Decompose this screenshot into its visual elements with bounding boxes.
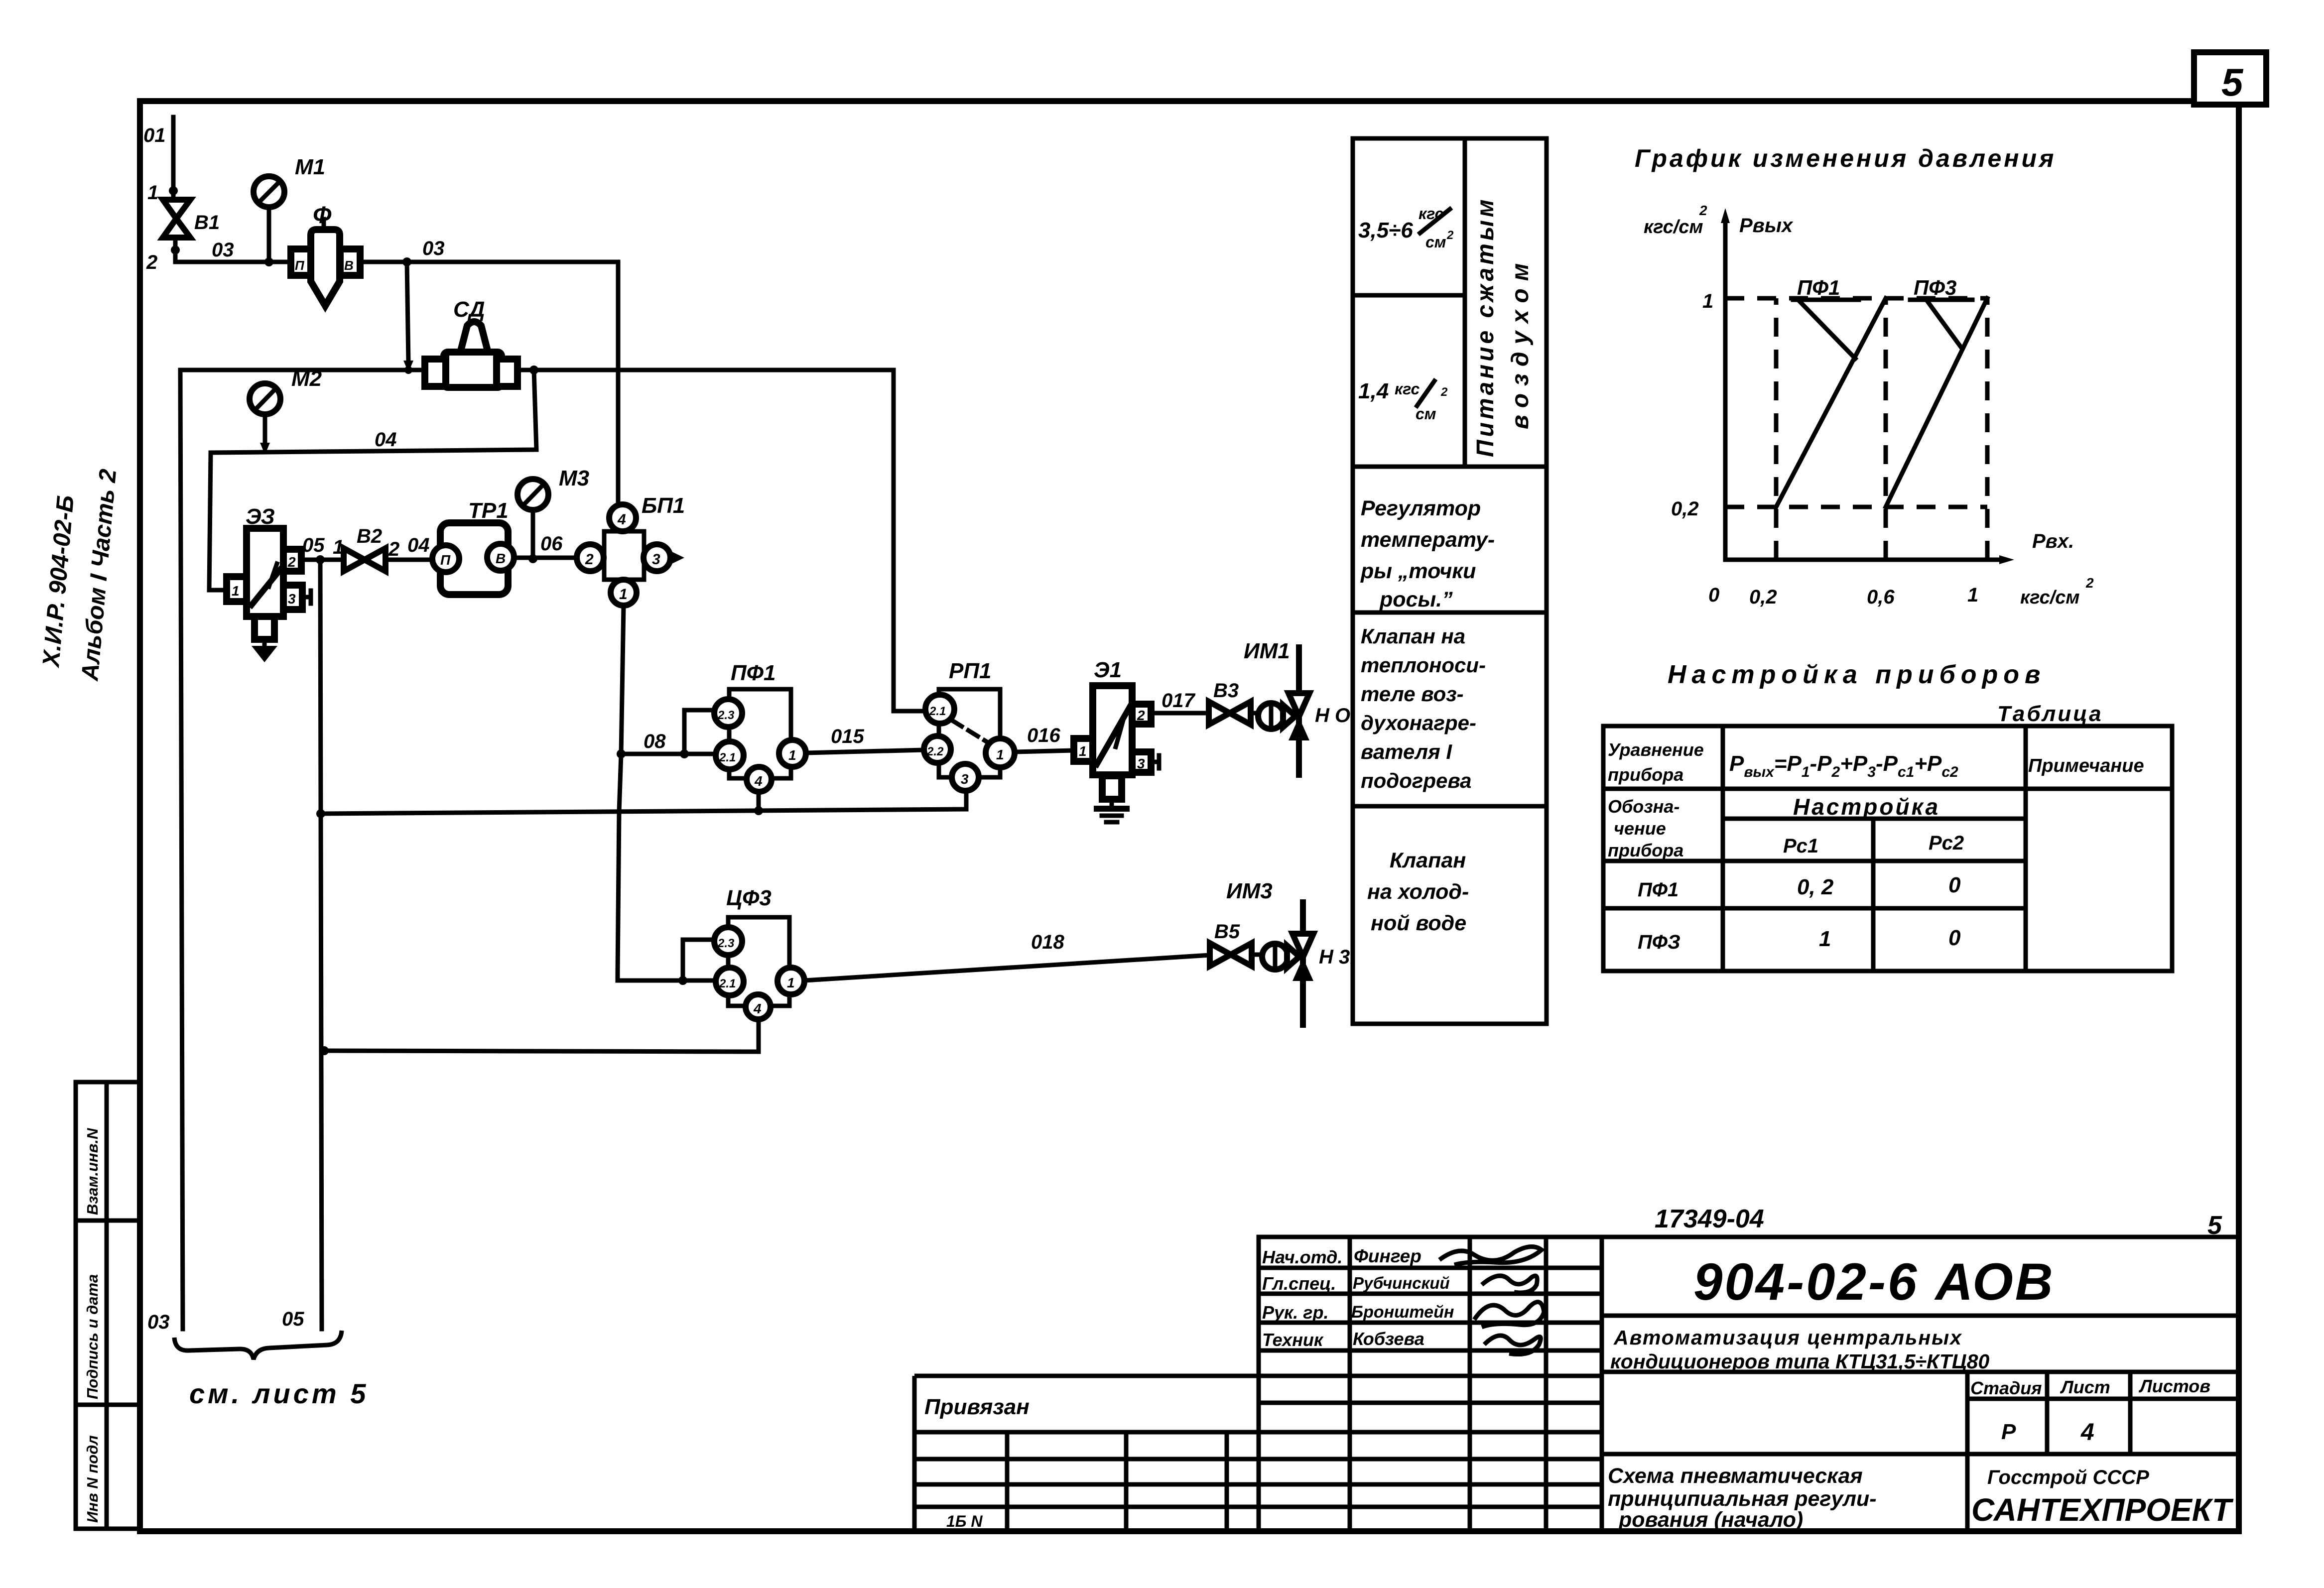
svg-text:2: 2 — [388, 538, 399, 560]
solenoid valve E3 — [227, 504, 311, 662]
svg-text:вателя I: вателя I — [1361, 740, 1452, 763]
svg-text:1: 1 — [1819, 927, 1831, 951]
wire 05 branch to CF3-4 — [320, 1019, 759, 1055]
settings header Uravnenie pribora — [1608, 739, 1704, 785]
svg-text:03: 03 — [422, 238, 445, 259]
svg-text:2.3: 2.3 — [717, 937, 735, 950]
svg-text:ПФ1: ПФ1 — [1797, 276, 1840, 299]
svg-text:Техник: Техник — [1262, 1330, 1324, 1350]
settings table grid — [1603, 726, 2172, 971]
svg-text:П: П — [295, 258, 305, 273]
svg-text:4: 4 — [2080, 1419, 2094, 1446]
svg-text:0,2: 0,2 — [1671, 498, 1699, 520]
manometer M2 — [250, 366, 322, 455]
wire 04 branch down to M2 / E3 — [209, 370, 536, 590]
svg-text:1: 1 — [996, 747, 1004, 762]
settings header Oboznachenie pribora — [1608, 796, 1683, 860]
legend text Klapan na teplonositele — [1361, 624, 1486, 792]
title block row Ruk.gr. Bronshteyn — [1262, 1302, 1544, 1327]
svg-text:М1: М1 — [295, 155, 325, 179]
filter F — [291, 219, 360, 306]
frame top line — [140, 98, 2266, 104]
svg-text:04: 04 — [407, 534, 430, 556]
svg-text:ПФЗ: ПФЗ — [1638, 931, 1680, 953]
wire 04 from SD outlet to RP1 — [517, 366, 925, 711]
graph label PF3 with leader — [1910, 276, 1972, 347]
legend table (middle) — [1353, 138, 1547, 1024]
svg-text:Подпись и дата: Подпись и дата — [84, 1274, 101, 1399]
title block org Gosstroy SSSR — [1971, 1466, 2234, 1528]
manometer M1 — [254, 155, 325, 266]
svg-text:2: 2 — [2085, 575, 2094, 591]
svg-text:Настройка: Настройка — [1793, 794, 1940, 820]
svg-text:0: 0 — [1948, 873, 1961, 897]
svg-text:М2: М2 — [291, 366, 322, 391]
title block row Tekhnik Kobzeva — [1262, 1329, 1541, 1354]
svg-text:3: 3 — [1137, 756, 1145, 771]
wire 016 from RP1 to E1 — [1015, 725, 1074, 752]
legend value 3,5-6 kgs/cm2 — [1358, 205, 1454, 251]
svg-text:Рвых=Р1-Р2+Р3-Рс1+Рс2: Рвых=Р1-Р2+Р3-Рс1+Рс2 — [1729, 751, 1958, 780]
title block middle separator — [1602, 1370, 2239, 1374]
svg-text:Р: Р — [2001, 1420, 2016, 1444]
svg-text:Клапан на: Клапан на — [1361, 624, 1465, 648]
actuator IM3 with valve (normally closed) — [1226, 879, 1355, 1025]
title block line under code — [1602, 1314, 2239, 1318]
wire 06 from TR1 to BP1 — [515, 533, 577, 558]
svg-text:Госстрой СССР: Госстрой СССР — [1987, 1466, 2149, 1488]
wire SD inlet line (net 03 to sheet 5) — [180, 366, 426, 374]
settings row PF1 — [1638, 873, 1961, 901]
wire 017 from E1 to V3 — [1151, 690, 1209, 713]
svg-text:2.1: 2.1 — [719, 977, 736, 990]
svg-text:П: П — [440, 552, 451, 568]
svg-text:Листов: Листов — [2138, 1376, 2210, 1396]
svg-text:3: 3 — [961, 771, 969, 787]
svg-text:рования (начало): рования (начало) — [1618, 1508, 1803, 1532]
svg-text:В5: В5 — [1214, 921, 1240, 943]
graph line PF3 — [1886, 298, 1987, 507]
svg-text:Фингер: Фингер — [1354, 1246, 1421, 1266]
svg-text:Рвх.: Рвх. — [2032, 530, 2074, 552]
frame left line — [137, 101, 143, 1531]
svg-text:Рвых: Рвых — [1739, 215, 1794, 237]
left margin handwritten note X.I.R. 904-02-B — [38, 494, 79, 669]
svg-text:Н 3.: Н 3. — [1319, 946, 1355, 968]
valve V2 — [344, 525, 386, 571]
legend text Klapan na kholodnoy vode — [1367, 849, 1469, 935]
svg-text:ИМ3: ИМ3 — [1226, 879, 1273, 903]
svg-text:В1: В1 — [194, 212, 220, 234]
left margin handwritten note Albom I Chast 2 — [77, 468, 122, 682]
svg-text:теплоноси-: теплоноси- — [1361, 653, 1486, 677]
relay CF3 — [714, 886, 804, 1019]
actuator IM1 with valve (normally open) — [1244, 639, 1350, 775]
title block row Gl.spets. Rubchinskiy — [1262, 1273, 1537, 1294]
svg-text:СД: СД — [453, 297, 485, 322]
power supply block BP1 — [577, 493, 685, 606]
svg-text:015: 015 — [831, 726, 864, 747]
svg-text:кгс/см: кгс/см — [2020, 587, 2080, 608]
title block drawing name — [1608, 1464, 1877, 1532]
svg-text:БП1: БП1 — [642, 493, 685, 518]
svg-text:ной воде: ной воде — [1371, 911, 1466, 935]
ground (vent) under E1 — [1097, 799, 1127, 822]
svg-text:Инв N подл: Инв N подл — [84, 1435, 101, 1523]
wire 04 from V2 to TR1 — [386, 534, 432, 560]
svg-text:016: 016 — [1027, 725, 1060, 746]
svg-text:Настройка приборов: Настройка приборов — [1668, 660, 2046, 689]
svg-text:на холод-: на холод- — [1367, 880, 1469, 904]
graph y-axis Pvykh — [1644, 203, 1794, 560]
svg-text:3,5÷6: 3,5÷6 — [1358, 218, 1413, 243]
svg-text:Бронштейн: Бронштейн — [1351, 1303, 1454, 1322]
wire 05 branch to PF1-4 and RP1-3 — [316, 791, 966, 818]
svg-text:08: 08 — [644, 731, 666, 752]
svg-text:2.1: 2.1 — [929, 705, 946, 718]
svg-text:РП1: РП1 — [949, 659, 991, 683]
wire 08 from BP1 port1 down and to PF1 — [617, 606, 716, 985]
svg-text:Рс2: Рс2 — [1929, 832, 1964, 854]
svg-text:03: 03 — [212, 239, 234, 261]
svg-text:воздухом: воздухом — [1507, 256, 1534, 429]
svg-text:М3: М3 — [559, 466, 589, 490]
svg-text:ры „точки: ры „точки — [1360, 559, 1476, 583]
svg-text:5: 5 — [2221, 60, 2244, 104]
svg-text:Рс1: Рс1 — [1783, 835, 1818, 857]
svg-text:0: 0 — [1708, 584, 1719, 606]
wire 03 from V1 to filter F — [175, 238, 291, 262]
legend value 1,4 kgs/cm2 — [1358, 379, 1448, 423]
svg-text:см: см — [1416, 405, 1436, 423]
svg-text:см: см — [1425, 233, 1446, 251]
svg-text:904-02-6 АОВ: 904-02-6 АОВ — [1693, 1253, 2055, 1311]
svg-text:0, 2: 0, 2 — [1797, 875, 1834, 899]
wire 05 vertical to bottom (see sheet 5) — [282, 560, 322, 1330]
svg-text:4: 4 — [754, 773, 763, 789]
svg-text:0: 0 — [1948, 926, 1961, 950]
title block outline — [1259, 1237, 2239, 1531]
svg-text:05: 05 — [282, 1308, 304, 1330]
svg-text:2: 2 — [146, 251, 157, 273]
graph x-axis Pvkh — [1708, 530, 2094, 608]
wire 01 inlet — [143, 117, 178, 204]
solenoid valve E1 — [1074, 658, 1159, 799]
svg-text:График изменения давления: График изменения давления — [1635, 144, 2056, 172]
svg-text:Х.И.Р. 904-02-Б: Х.И.Р. 904-02-Б — [38, 494, 79, 669]
svg-text:Привязан: Привязан — [924, 1395, 1030, 1419]
valve V3 — [1209, 680, 1251, 725]
svg-text:1,4: 1,4 — [1358, 379, 1389, 403]
svg-text:Лист: Лист — [2060, 1377, 2110, 1397]
svg-text:Уравнение: Уравнение — [1608, 739, 1704, 760]
svg-text:Ф: Ф — [313, 202, 332, 229]
svg-text:В3: В3 — [1213, 680, 1239, 702]
svg-text:кондиционеров типа КТЦ31,5÷К: кондиционеров типа КТЦ31,5÷КТЦ80 — [1610, 1350, 1989, 1373]
svg-text:1: 1 — [619, 586, 628, 603]
svg-text:2: 2 — [1440, 385, 1448, 399]
legend rotated text Pitanie szhatym vozdukhom — [1472, 197, 1534, 457]
wire 03 down to bottom (see sheet 5) — [147, 370, 183, 1333]
svg-text:018: 018 — [1031, 931, 1064, 953]
title block stadia list listov grid — [1602, 1372, 2239, 1531]
svg-text:06: 06 — [540, 533, 563, 555]
svg-text:2: 2 — [1699, 203, 1707, 218]
svg-text:4: 4 — [617, 511, 626, 528]
svg-text:Взам.инв.N: Взам.инв.N — [84, 1128, 101, 1215]
sheet number box 5 (top right) — [2194, 52, 2266, 105]
svg-text:1: 1 — [147, 182, 158, 204]
svg-text:принципиальная регули-: принципиальная регули- — [1608, 1487, 1877, 1511]
graph label PF1 with leader — [1793, 276, 1859, 359]
brace over 03 05 (see sheet 5) — [174, 1331, 369, 1409]
svg-text:1Б N: 1Б N — [946, 1512, 983, 1530]
svg-text:кгс: кгс — [1395, 380, 1420, 398]
svg-text:ЦФ3: ЦФ3 — [726, 886, 772, 910]
svg-text:В: В — [344, 258, 354, 273]
svg-text:1: 1 — [232, 583, 240, 599]
svg-text:Регулятор: Регулятор — [1361, 496, 1481, 520]
svg-text:01: 01 — [143, 124, 166, 146]
svg-text:температу-: температу- — [1361, 528, 1495, 552]
bottom-left stamp column — [76, 1082, 140, 1529]
svg-text:Обозна-: Обозна- — [1608, 796, 1679, 817]
svg-text:2.1: 2.1 — [719, 751, 736, 764]
wire 05 from E3 port2 to V2 — [301, 534, 344, 564]
title block row Nach.otd. Finger — [1262, 1246, 1542, 1267]
svg-text:Питание сжатым: Питание сжатым — [1472, 197, 1499, 457]
svg-text:В: В — [496, 551, 506, 566]
svg-text:Гл.спец.: Гл.спец. — [1262, 1273, 1336, 1294]
svg-text:3: 3 — [288, 591, 296, 607]
svg-text:подогрева: подогрева — [1361, 769, 1472, 792]
relay RP1 — [924, 659, 1015, 791]
svg-text:теле воз-: теле воз- — [1361, 682, 1464, 706]
svg-text:1: 1 — [787, 975, 795, 990]
temperature regulator TR1 — [432, 498, 514, 595]
svg-text:Э1: Э1 — [1094, 658, 1122, 682]
svg-text:2: 2 — [1137, 708, 1145, 723]
node 2 below V1 — [146, 245, 180, 273]
svg-text:05: 05 — [302, 534, 325, 556]
svg-text:04: 04 — [375, 429, 397, 451]
valve V5 — [1210, 921, 1252, 966]
svg-text:0,2: 0,2 — [1749, 586, 1777, 608]
svg-text:017: 017 — [1162, 690, 1195, 712]
svg-text:ПФ1: ПФ1 — [1638, 879, 1678, 901]
graph line PF1 — [1776, 298, 1886, 507]
svg-text:кгс/см: кгс/см — [1644, 217, 1703, 238]
svg-text:2: 2 — [585, 551, 594, 568]
svg-text:ПФ1: ПФ1 — [731, 661, 775, 685]
svg-text:Таблица: Таблица — [1997, 702, 2103, 726]
svg-text:3: 3 — [652, 551, 660, 568]
privyazan block — [914, 1376, 1259, 1531]
svg-text:1: 1 — [788, 747, 796, 763]
svg-text:03: 03 — [147, 1311, 170, 1333]
svg-text:1: 1 — [1702, 290, 1713, 312]
svg-text:см. лист 5: см. лист 5 — [189, 1378, 369, 1409]
settings row PF3 — [1638, 926, 1961, 953]
wire 03 drop to SD inlet line with arrow — [403, 262, 413, 372]
svg-text:ИМ1: ИМ1 — [1244, 639, 1290, 663]
svg-text:1: 1 — [1079, 743, 1087, 759]
svg-text:1: 1 — [1967, 584, 1978, 606]
svg-text:2.3: 2.3 — [717, 709, 735, 722]
svg-text:В2: В2 — [357, 525, 382, 547]
svg-text:прибора: прибора — [1608, 764, 1683, 785]
svg-text:2: 2 — [287, 554, 296, 570]
svg-text:духонагре-: духонагре- — [1361, 711, 1476, 734]
svg-text:прибора: прибора — [1608, 840, 1683, 860]
svg-text:Кобзева: Кобзева — [1353, 1329, 1424, 1349]
wire 015 from PF1 to RP1 — [806, 726, 924, 753]
svg-text:ТР1: ТР1 — [468, 498, 509, 523]
svg-text:Примечание: Примечание — [2028, 755, 2144, 776]
svg-text:ПФ3: ПФ3 — [1914, 276, 1956, 299]
svg-text:росы.”: росы.” — [1379, 588, 1453, 611]
svg-text:0,6: 0,6 — [1867, 586, 1895, 608]
svg-text:Клапан: Клапан — [1390, 849, 1466, 872]
dew point sensor SD — [425, 297, 517, 387]
svg-text:Стадия: Стадия — [1970, 1378, 2042, 1398]
svg-text:Рук. гр.: Рук. гр. — [1262, 1302, 1329, 1323]
svg-text:Рубчинский: Рубчинский — [1353, 1274, 1450, 1292]
svg-text:Автоматизация центральных: Автоматизация центральных — [1613, 1326, 1962, 1349]
graph dashed grid — [1725, 298, 1987, 560]
valve V1 — [163, 200, 220, 238]
frame right line — [2236, 105, 2242, 1531]
svg-text:2.2: 2.2 — [926, 745, 944, 758]
svg-text:4: 4 — [753, 1001, 762, 1016]
svg-text:Нач.отд.: Нач.отд. — [1262, 1247, 1342, 1267]
frame bottom line — [140, 1528, 2239, 1534]
svg-text:чение: чение — [1614, 818, 1666, 839]
title block project name — [1610, 1326, 1989, 1373]
legend text Regulyator temperatury tochki rosy — [1360, 496, 1495, 611]
wire 03 from filter to corner feeding BP1 — [360, 238, 618, 504]
svg-text:Н О: Н О — [1315, 705, 1350, 727]
svg-text:САНТЕХПРОЕКТ: САНТЕХПРОЕКТ — [1971, 1492, 2234, 1528]
relay PF1 — [714, 661, 806, 792]
svg-text:Схема пневматическая: Схема пневматическая — [1608, 1464, 1863, 1488]
settings formula Pvykh=P1-P2+P3-Pc1+Pc2 — [1729, 751, 1958, 780]
svg-text:2: 2 — [1446, 229, 1454, 242]
svg-text:Альбом I Часть 2: Альбом I Часть 2 — [77, 468, 122, 682]
manometer M3 — [517, 466, 589, 563]
svg-text:17349-04: 17349-04 — [1655, 1205, 1764, 1233]
wire 018 from CF3 to V5 — [804, 931, 1210, 980]
